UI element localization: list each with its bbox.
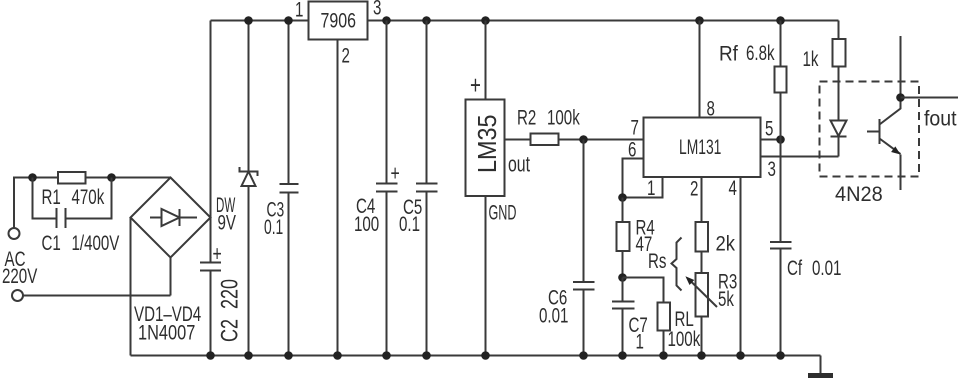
svg-text:1: 1 (295, 0, 303, 21)
resistor RL (658, 303, 671, 331)
wire: C4 to ground bus (386, 192, 388, 356)
node: ground bus at C7 (618, 351, 627, 360)
node: junction R1/C1 left (28, 173, 37, 182)
wire: C3 branch from top bus (288, 21, 290, 185)
wire: bridge right vertex rail up to top bus / down to C2 (210, 21, 212, 262)
node: top bus at C3 (284, 16, 293, 25)
wire: pin5 to Rf/Cf node (761, 139, 781, 141)
wire: Rf branch from top bus (780, 21, 782, 67)
wire: lower AC lead to bridge bottom vertex (24, 295, 171, 297)
brace Rs (672, 238, 682, 291)
node: ground bus at zener (244, 351, 253, 360)
capacitor Cf (770, 242, 792, 249)
wire: 1k to LED anode (838, 67, 840, 121)
wire: bridge bottom vertex down (170, 258, 172, 296)
wire: C6 branch down (583, 140, 585, 283)
svg-text:C2 220: C2 220 (217, 279, 243, 342)
svg-text:0.1: 0.1 (399, 211, 420, 235)
terminal: AC input upper (9, 228, 20, 239)
svg-text:6: 6 (628, 137, 636, 161)
resistor 2k (696, 222, 709, 252)
wire: C5 branch from top bus (426, 21, 428, 184)
wire: LM35 supply from top bus (485, 21, 487, 100)
svg-text:0.01: 0.01 (812, 255, 841, 279)
node: ground bus at R3 (697, 351, 706, 360)
resistor R2 (531, 134, 559, 146)
svg-text:Rf: Rf (719, 43, 738, 66)
wire: 2k to R3 (701, 252, 703, 274)
rheostat R3 arrow (689, 280, 717, 308)
wire: bridge left vertex to ground bus (130, 218, 132, 356)
node: junction pin6/pin1 (618, 193, 627, 202)
svg-text:0.1: 0.1 (264, 215, 283, 239)
node: ground bus at C6 (579, 351, 588, 360)
wire: C1 branch right (66, 178, 112, 219)
LED of optocoupler (831, 121, 847, 137)
wire: pin6 loop to pin1 node (623, 159, 644, 198)
wire: upper AC lead to bridge top vertex (14, 178, 171, 229)
node: ground bus at Cf (776, 351, 785, 360)
wire: R2 to LM131 pin7 (559, 139, 644, 141)
wire: Cf to ground bus (780, 249, 782, 356)
svg-text:Cf: Cf (787, 255, 803, 279)
node: ground bus at pin4 (736, 351, 745, 360)
node: top bus at Rf (776, 16, 785, 25)
node: junction pin5/Rf/Cf (776, 135, 785, 144)
wire: junction down to C7 (622, 278, 624, 302)
svg-text:6.8k: 6.8k (746, 40, 775, 64)
wire: top bus left segment (bridge+ rail to 7906 pin1) (211, 20, 309, 22)
capacitor C4 (electrolytic) (376, 184, 398, 192)
wire: pin4 to ground bus (740, 178, 742, 356)
wire: 7906 pin2 to ground bus (337, 40, 339, 356)
node: ground bus at RL (659, 351, 668, 360)
wire: C2 to ground bus (210, 272, 212, 356)
node: ground bus at C2 (206, 351, 215, 360)
svg-text:R2: R2 (517, 105, 536, 129)
node: junction R1/C1 right (107, 173, 116, 182)
svg-text:GND: GND (489, 200, 517, 224)
capacitor C5 (416, 184, 438, 192)
wire: 1k branch corner from top bus (838, 21, 840, 40)
node: top bus at LM35 (481, 16, 490, 25)
svg-text:2: 2 (690, 176, 698, 200)
svg-text:3: 3 (768, 156, 776, 180)
wire: top bus right segment (7906 pin3 rail to 1k corner) (368, 20, 839, 22)
svg-text:0.01: 0.01 (539, 303, 568, 327)
wire: LM35 GND to ground bus (485, 196, 487, 356)
svg-text:100: 100 (354, 211, 379, 235)
capacitor C2 (electrolytic) (200, 263, 221, 271)
zener diode DW (240, 167, 258, 176)
node: ground bus at LM35 GND (481, 351, 490, 360)
node: junction R2/C6 (579, 135, 588, 144)
wire: Rf to Cf node and down to Cf (780, 93, 782, 243)
ground symbol (820, 356, 822, 374)
wire: R4 to junction (622, 251, 624, 278)
optocoupler 4N28 dashed box (820, 82, 920, 177)
rheostat R3 (696, 273, 709, 317)
svg-text:Rs: Rs (648, 248, 666, 272)
wire: pin2 down to 2k (701, 178, 703, 223)
capacitor C7 (612, 302, 635, 309)
diode symbol inside bridge (150, 209, 197, 226)
svg-text:2: 2 (342, 43, 350, 67)
wire: C3 to ground bus (288, 193, 290, 356)
wire: R3 to ground bus (701, 317, 703, 356)
capacitor C1 (57, 208, 66, 228)
svg-text:1: 1 (636, 329, 644, 353)
svg-text:7906: 7906 (321, 8, 356, 32)
wire: bottom ground bus (131, 355, 821, 357)
node: top bus at zener (244, 16, 253, 25)
svg-text:+: + (391, 162, 400, 186)
wire: C1 branch left (33, 178, 57, 219)
node: ground bus at C4 (382, 351, 391, 360)
wire: RL to ground bus (663, 331, 665, 356)
svg-text:7: 7 (631, 115, 639, 139)
svg-text:+: + (470, 70, 481, 100)
phototransistor of optocoupler: base bar (879, 119, 881, 144)
svg-text:470k: 470k (72, 184, 105, 208)
svg-text:1N4007: 1N4007 (138, 321, 195, 344)
svg-text:220V: 220V (2, 263, 38, 287)
phototransistor base lead (867, 131, 880, 133)
wire: zener branch from top bus (248, 21, 250, 172)
node: ground bus at 7906 pin2 (333, 351, 342, 360)
wire: pin3 to optocoupler LED cathode (761, 156, 839, 158)
resistor 1k (833, 39, 846, 67)
node: top bus at C4 (382, 16, 391, 25)
node: collector/fout junction (896, 93, 905, 102)
wire: fout line (901, 97, 958, 99)
converter U LM131 (644, 118, 761, 178)
node: junction R4/C7/RL (618, 273, 627, 282)
svg-text:1k: 1k (803, 46, 820, 70)
wire: C4 branch from top bus (386, 21, 388, 184)
svg-text:8: 8 (707, 96, 715, 120)
node: ground bus at C5 (422, 351, 431, 360)
regulator U 7906 (309, 2, 368, 40)
svg-text:2k: 2k (716, 232, 736, 255)
svg-text:R1: R1 (42, 184, 61, 208)
svg-text:4N28: 4N28 (835, 183, 883, 207)
svg-text:1/400V: 1/400V (72, 230, 121, 254)
svg-text:C1: C1 (42, 230, 61, 254)
wire: C5 to ground bus (426, 192, 428, 356)
svg-text:5k: 5k (718, 286, 735, 310)
resistor R1 (58, 172, 86, 184)
svg-text:out: out (508, 153, 531, 177)
wire: junction to RL branch (623, 278, 664, 303)
resistor Rf (775, 67, 787, 93)
bridge rectifier VD1-VD4 (131, 178, 211, 258)
resistor R4 (617, 222, 630, 251)
svg-text:fout: fout (924, 108, 957, 131)
wire: pin8 to top bus (699, 21, 701, 118)
svg-text:1: 1 (647, 175, 655, 199)
svg-text:+: + (213, 243, 222, 267)
wire: LED cathode down to pin3 line (838, 137, 840, 157)
capacitor C6 (573, 282, 595, 290)
wire: emitter down (900, 155, 902, 191)
node: ground bus at C3 (284, 351, 293, 360)
wire: pin1 stub (623, 178, 663, 198)
terminal: AC input lower (12, 290, 23, 301)
sensor U LM35 (466, 100, 505, 197)
svg-text:4: 4 (729, 175, 737, 199)
svg-text:LM131: LM131 (679, 135, 721, 159)
wire: LM35 out to R2 (505, 139, 531, 141)
svg-text:100k: 100k (668, 326, 701, 350)
svg-text:5: 5 (765, 116, 773, 140)
wire: C7 to ground bus (622, 309, 624, 356)
node: top bus at C5 (422, 16, 431, 25)
svg-text:3: 3 (373, 0, 381, 19)
wire: pin6 node down to R4 (622, 198, 624, 223)
svg-text:9V: 9V (218, 210, 237, 234)
wire: zener to ground bus (248, 186, 250, 356)
phototransistor emitter with arrow (880, 139, 901, 155)
svg-text:100k: 100k (547, 105, 580, 129)
svg-text:LM35: LM35 (474, 114, 502, 173)
capacitor C3 (280, 184, 299, 193)
node: top bus at LM131 pin8 (695, 16, 704, 25)
phototransistor collector (880, 36, 901, 125)
wire: C6 to ground bus (583, 290, 585, 356)
